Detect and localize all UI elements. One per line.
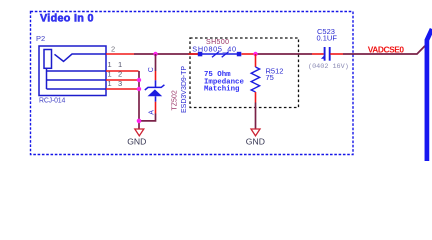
ground symbol (left) xyxy=(135,129,144,136)
capacitor C523 left pin xyxy=(312,53,324,55)
wire: diode anode down to ground node xyxy=(139,114,156,130)
pin number 1 1 xyxy=(108,60,123,69)
value 0.1UF xyxy=(317,33,338,42)
svg-text:GND: GND xyxy=(127,137,146,147)
diode TZ502 anode pin wire xyxy=(155,102,157,114)
dashed block outline Video In 0 xyxy=(31,12,354,155)
svg-text:75: 75 xyxy=(266,73,274,82)
resistor R512 symbol xyxy=(251,67,259,92)
wire: R512 to ground xyxy=(255,103,257,130)
short SH500 pin stub left xyxy=(189,53,199,55)
svg-text:ESD3V3D9-TP: ESD3V3D9-TP xyxy=(181,66,188,113)
pin number 2 xyxy=(111,45,115,54)
pin 3 (shield 3) of P2 xyxy=(106,88,139,90)
svg-text:C: C xyxy=(148,67,155,72)
wire: net VADCSE0 to bus xyxy=(343,46,425,54)
svg-text:(0402 16V): (0402 16V) xyxy=(308,63,349,71)
pin 2 of P2 xyxy=(106,53,134,55)
connector P2 body (RCA jack symbol) xyxy=(39,46,106,96)
GND label (left) xyxy=(127,137,146,147)
resistor R512 top pin xyxy=(255,54,257,67)
ground symbol (right) xyxy=(251,129,260,136)
svg-text:Matching: Matching xyxy=(204,86,240,94)
TVS diode TZ502 symbol xyxy=(145,85,165,102)
value SH0805_40 xyxy=(192,45,236,54)
short SH500 symbol xyxy=(198,52,242,58)
pin label C xyxy=(148,67,155,72)
pin label A xyxy=(148,110,155,115)
value ESD3V3D9-TP (vertical) xyxy=(181,66,188,113)
connector P2 value label RCJ-014 xyxy=(39,97,65,104)
resistor R512 bottom pin xyxy=(255,92,257,103)
svg-text:RCJ-014: RCJ-014 xyxy=(39,97,65,104)
connector P2 refdes label xyxy=(36,34,45,43)
refdes SH500 xyxy=(206,39,229,46)
capacitor C523 symbol xyxy=(321,47,330,61)
diode TZ502 cathode pin wire xyxy=(155,71,157,87)
wire: junction to diode cathode xyxy=(155,54,157,71)
junction dot at ground node xyxy=(137,119,142,124)
pin 2 (shield 2) of P2 xyxy=(106,79,139,81)
svg-text:Video In 0: Video In 0 xyxy=(40,13,94,25)
refdes C523 xyxy=(317,27,335,36)
svg-text:1: 1 xyxy=(108,60,112,69)
svg-text:GND: GND xyxy=(246,137,265,147)
svg-text:1: 1 xyxy=(118,60,122,69)
capacitor C523 right pin xyxy=(330,53,343,55)
svg-text:SH0805_40: SH0805_40 xyxy=(192,45,236,54)
pin 1 (shield 1) of P2 xyxy=(106,70,139,72)
svg-text:P2: P2 xyxy=(36,34,45,43)
note (0402 16V) xyxy=(308,63,349,71)
svg-text:3: 3 xyxy=(118,79,122,88)
bus (thick blue) xyxy=(427,29,432,161)
junction dot shield pin 1 3 xyxy=(137,87,141,91)
svg-text:2: 2 xyxy=(111,45,115,54)
svg-text:TZ502: TZ502 xyxy=(172,90,179,110)
junction dot at R512 tap xyxy=(253,52,257,56)
refdes R512 xyxy=(266,67,284,76)
wire: main video net from pin 2 to SH500 xyxy=(134,53,198,55)
value 75 xyxy=(266,73,274,82)
svg-text:0.1UF: 0.1UF xyxy=(317,33,338,42)
annotation dashed box impedance matching xyxy=(190,38,299,108)
svg-text:2: 2 xyxy=(118,70,122,79)
net label VADCSE0 xyxy=(368,44,405,54)
svg-text:A: A xyxy=(148,110,155,115)
note text 75 Ohm Impedance Matching xyxy=(204,71,244,93)
svg-text:1: 1 xyxy=(108,70,112,79)
svg-text:VADCSE0: VADCSE0 xyxy=(368,44,405,54)
pin number 1 2 xyxy=(108,70,123,79)
svg-text:1: 1 xyxy=(108,79,112,88)
junction dot at diode tap xyxy=(153,52,157,56)
title Video In 0 xyxy=(40,13,94,25)
pin number 1 3 xyxy=(108,79,123,88)
refdes TZ502 (vertical) xyxy=(172,90,179,110)
wire: shield bus vertical xyxy=(138,71,140,121)
wire: SH500 to C523 xyxy=(257,53,312,55)
junction dot shield pin 1 2 xyxy=(137,78,141,82)
GND label (right) xyxy=(246,137,265,147)
short SH500 pin stub right xyxy=(242,53,255,55)
